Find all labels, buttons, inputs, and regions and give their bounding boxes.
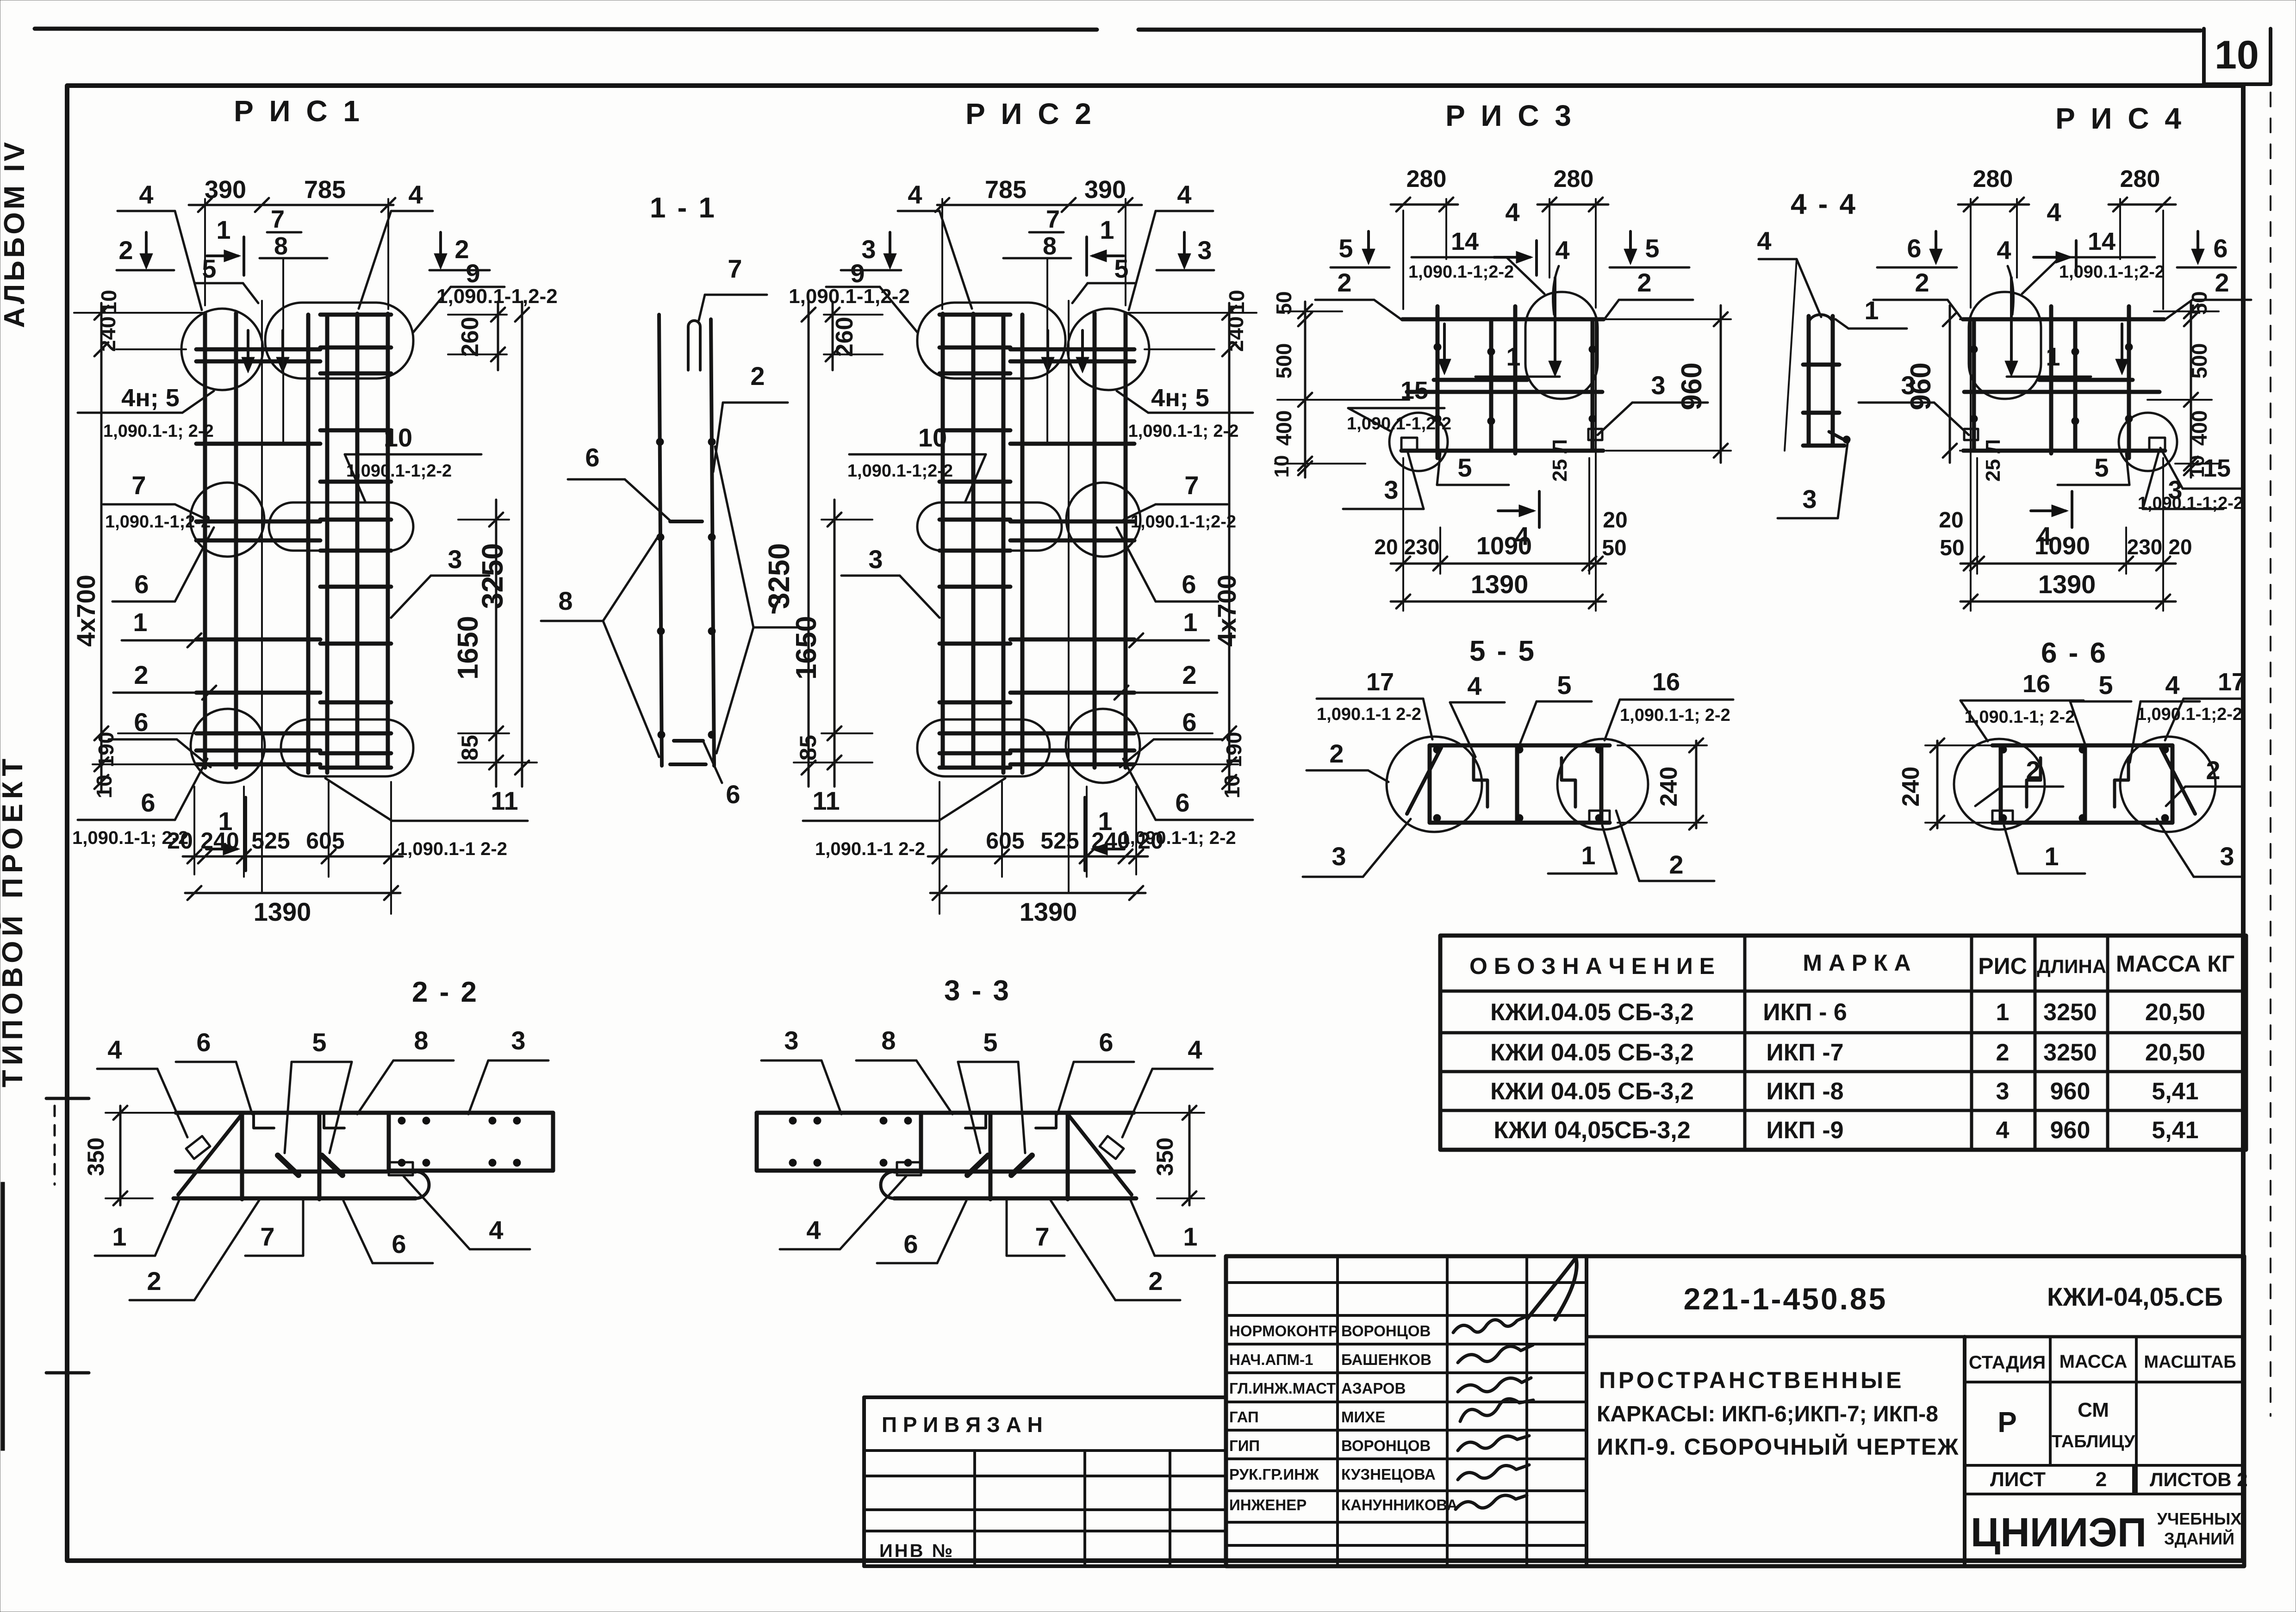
cage vertical e double [1595,319,1597,611]
svg-text:2: 2 [1915,268,1929,297]
cage vertical bar b2 [1002,315,1006,773]
svg-text:3: 3 [2168,475,2182,504]
plate marker left [1401,438,1417,450]
bar end dots [398,1117,405,1124]
left ladder rungs [196,347,320,352]
svg-text:85: 85 [795,735,821,761]
hook mark 2 [324,1113,344,1128]
svg-text:1: 1 [1100,215,1114,244]
detail circle middle [190,483,264,557]
svg-text:1: 1 [216,215,230,244]
svg-text:500: 500 [2187,343,2211,379]
cage vertical c [1513,306,1518,453]
cage vertical e double [1970,319,1972,611]
svg-text:5: 5 [2098,670,2113,700]
dim 3250 [521,302,523,787]
svg-text:16: 16 [2022,670,2050,698]
svg-text:М А Р К А: М А Р К А [1803,950,1910,976]
svg-text:1650: 1650 [452,616,484,680]
beam right rect [919,1113,923,1171]
svg-text:2: 2 [1329,739,1344,768]
title block divider line [1587,1335,2243,1339]
dim 350 [1188,1106,1191,1205]
svg-text:НОРМОКОНТР: НОРМОКОНТР [1229,1322,1338,1339]
svg-text:2: 2 [147,1266,161,1296]
extension line [1068,301,1070,893]
svg-text:4: 4 [1757,226,1771,255]
bar dots [2161,746,2169,753]
title block outline [1226,1256,2244,1566]
svg-text:ТАБЛИЦУ: ТАБЛИЦУ [2052,1432,2135,1451]
svg-text:4: 4 [1177,180,1191,209]
dim 960 [1720,305,1722,463]
svg-text:4: 4 [806,1215,821,1245]
bottom dim row [1402,458,1404,611]
svg-text:2: 2 [118,236,133,265]
svg-text:17: 17 [2218,668,2246,696]
assembly mid bar [2083,745,2087,823]
svg-text:240: 240 [96,316,120,352]
cage vertical a [1436,306,1440,458]
plate marker [1992,811,2013,823]
cage bottom chord [1963,449,2165,453]
svg-text:14: 14 [2088,228,2116,255]
svg-text:7: 7 [271,205,285,233]
svg-text:3250: 3250 [2043,1039,2097,1066]
svg-text:230: 230 [1404,535,1440,559]
detail stadium top [917,303,1065,378]
svg-text:МИХЕ: МИХЕ [1341,1408,1385,1426]
svg-text:ТИПОВОЙ ПРОЕКТ: ТИПОВОЙ ПРОЕКТ [0,754,29,1087]
detail stadium middle [917,502,1062,551]
svg-text:1: 1 [1506,342,1520,371]
svg-text:1390: 1390 [1471,570,1529,599]
svg-text:5: 5 [1557,670,1571,700]
extension line [261,301,263,893]
svg-text:7: 7 [728,254,742,283]
svg-text:8: 8 [558,586,572,615]
section 1-1 rung stub lower [674,739,703,743]
svg-text:ГИП: ГИП [1229,1437,1260,1454]
diagonal bar in circle [1407,748,1441,814]
svg-text:1,090.1-1;2-2: 1,090.1-1;2-2 [2137,705,2242,724]
svg-text:2: 2 [1669,850,1683,879]
svg-text:1,090.1-1;2-2: 1,090.1-1;2-2 [1131,512,1236,532]
svg-text:350: 350 [83,1137,109,1176]
page number box [2202,29,2206,84]
left ladder rungs [1010,347,1134,352]
svg-text:20,50: 20,50 [2145,999,2205,1026]
svg-text:1,090.1-1,2-2: 1,090.1-1,2-2 [789,285,910,308]
sheet top scan line [35,29,1097,30]
svg-text:КЖИ 04.05 СБ-3,2: КЖИ 04.05 СБ-3,2 [1490,1078,1694,1105]
svg-text:400: 400 [1272,410,1296,446]
svg-text:1,090.1-1 2-2: 1,090.1-1 2-2 [1317,705,1421,724]
section 4-4 top cap [1809,315,1833,324]
svg-text:10: 10 [92,775,116,798]
left dim line 240 10 190 [1228,303,1231,792]
top dimension line 390 785 [937,204,1142,206]
detail circle [2119,413,2177,471]
svg-text:2: 2 [1996,1039,2010,1066]
z stirrup mark 1 [2115,758,2128,807]
svg-text:ЛИСТ: ЛИСТ [1990,1468,2046,1491]
detail circle top [1068,309,1149,390]
inclined square marker [186,1136,210,1159]
svg-text:1,090.1-1;2-2: 1,090.1-1;2-2 [847,461,953,481]
svg-text:2: 2 [134,660,148,689]
svg-text:ЗДАНИЙ: ЗДАНИЙ [2164,1529,2234,1548]
svg-text:6: 6 [1175,788,1189,817]
pill bar 1 [1011,1155,1032,1175]
svg-text:ИКП - 6: ИКП - 6 [1763,999,1847,1026]
svg-text:3: 3 [1332,842,1346,871]
svg-text:ДЛИНА: ДЛИНА [2037,955,2106,977]
svg-text:1090: 1090 [1476,532,1532,560]
beam bottom double chord [894,1170,1134,1174]
svg-text:1: 1 [2044,842,2059,871]
svg-text:1390: 1390 [1020,897,1077,926]
svg-text:5: 5 [2094,453,2109,482]
svg-text:10: 10 [1220,775,1244,798]
svg-text:5: 5 [202,254,216,283]
detail stadium bottom [281,719,413,776]
bottom chord bend [881,1172,894,1198]
svg-text:ВОРОНЦОВ: ВОРОНЦОВ [1341,1437,1431,1454]
svg-text:4: 4 [2165,670,2179,700]
svg-text:1,090.1-1 2-2: 1,090.1-1 2-2 [397,839,507,859]
svg-text:20: 20 [1939,508,1963,533]
svg-text:50: 50 [1272,291,1296,315]
cage vertical bar b1 [1020,315,1025,773]
svg-text:9: 9 [850,259,865,288]
plate marker [1589,811,1610,823]
svg-text:2: 2 [750,361,765,391]
beam vertical bar mid [1066,1113,1070,1199]
svg-text:525: 525 [251,828,290,854]
dim 1650 and 85 [834,500,836,787]
svg-text:1,090.1-1;2-2: 1,090.1-1;2-2 [2059,262,2165,282]
bottom dim row [193,787,195,874]
svg-text:ИКП -9: ИКП -9 [1766,1117,1843,1144]
svg-text:6: 6 [141,788,155,817]
svg-text:КУЗНЕЦОВА: КУЗНЕЦОВА [1341,1466,1436,1483]
cage vertical bar a2 [1093,313,1097,768]
plate marker [389,1162,413,1175]
dim 3250 [808,302,810,787]
svg-text:1650: 1650 [790,616,822,680]
svg-text:350: 350 [1152,1137,1178,1176]
svg-text:3: 3 [1901,371,1915,400]
cage vertical b [1489,319,1493,451]
svg-text:1: 1 [1864,296,1879,325]
svg-text:ИКП -8: ИКП -8 [1766,1078,1843,1105]
cage vertical bar c1 [971,314,976,768]
svg-text:3: 3 [1651,371,1665,400]
svg-text:ГЛ.ИНЖ.МАСТ: ГЛ.ИНЖ.МАСТ [1229,1380,1336,1397]
svg-text:15: 15 [1400,377,1428,404]
svg-text:50: 50 [2187,291,2211,315]
svg-text:1,090.1-1; 2-2: 1,090.1-1; 2-2 [1965,707,2075,727]
svg-text:230: 230 [2127,535,2163,559]
svg-text:КЖИ-04,05.СБ: КЖИ-04,05.СБ [2047,1282,2223,1311]
svg-text:6: 6 [585,443,599,472]
section 1-1 top hairpin hook [688,321,700,370]
svg-text:8: 8 [414,1026,428,1055]
assembly mid bar [1515,745,1519,823]
assembly end bar right [1999,745,2003,823]
svg-text:240: 240 [1655,767,1682,807]
svg-text:1,090.1-1; 2-2: 1,090.1-1; 2-2 [103,422,214,441]
svg-text:1: 1 [1581,841,1595,870]
cage vertical bar a1 [1124,313,1128,768]
svg-text:4н; 5: 4н; 5 [121,384,180,412]
svg-text:МАССА КГ: МАССА КГ [2116,951,2234,977]
svg-text:КАРКАСЫ: ИКП-6;ИКП-7; ИКП-8: КАРКАСЫ: ИКП-6;ИКП-7; ИКП-8 [1597,1402,1938,1426]
svg-text:25 Л: 25 Л [1549,439,1571,482]
detail circle bottom [1066,709,1140,783]
svg-text:1,090.1-1; 2-2: 1,090.1-1; 2-2 [1128,422,1239,441]
assembly top chord [1992,744,2172,748]
svg-text:КЖИ 04.05 СБ-3,2: КЖИ 04.05 СБ-3,2 [1490,1039,1694,1066]
section 1-1 right bar [711,319,714,766]
svg-text:20: 20 [1374,535,1398,559]
section 1-1 left bar [659,315,662,766]
svg-text:3: 3 [784,1026,798,1055]
svg-text:2: 2 [2215,268,2229,297]
cage top chord [1402,317,1604,322]
hook mark 2 [965,1113,986,1128]
svg-text:20: 20 [1603,508,1627,533]
cage vertical bar c1 [355,314,360,768]
detail circle bottom [191,709,265,783]
detail stadium bottom [917,719,1050,776]
svg-text:5,41: 5,41 [2152,1078,2198,1105]
svg-text:СТАДИЯ: СТАДИЯ [1969,1352,2046,1373]
svg-text:4: 4 [1188,1035,1202,1064]
beam vertical bar 2 [989,1113,993,1199]
svg-text:КЖИ 04,05СБ-3,2: КЖИ 04,05СБ-3,2 [1493,1117,1690,1144]
svg-text:20: 20 [167,828,193,854]
svg-text:ЦНИИЭП: ЦНИИЭП [1971,1509,2147,1555]
svg-text:ВОРОНЦОВ: ВОРОНЦОВ [1341,1322,1431,1339]
svg-text:3 - 3: 3 - 3 [944,975,1011,1007]
svg-text:3: 3 [1197,236,1212,265]
z stirrup mark 2 [1562,758,1575,807]
svg-text:1: 1 [2046,342,2060,371]
title block left grid [1226,1281,1587,1284]
detail stadium top [265,303,413,378]
svg-text:ИКП -7: ИКП -7 [1766,1039,1843,1066]
svg-text:5: 5 [1645,234,1659,263]
svg-text:АЛЬБОМ IV: АЛЬБОМ IV [0,139,31,328]
side dim 50 500 400 10 [2190,302,2192,477]
svg-text:6: 6 [134,570,149,599]
svg-text:1090: 1090 [2035,532,2090,560]
svg-text:25 Л: 25 Л [1982,439,2004,482]
bottom total 1390 [1391,601,1606,603]
svg-text:605: 605 [986,828,1024,854]
right ladder rungs [320,313,391,317]
hook mark 1 [254,1113,274,1128]
svg-text:6: 6 [1182,707,1196,737]
inclined bar [1068,1114,1132,1195]
detail stadium middle [269,502,413,551]
svg-text:785: 785 [985,176,1027,204]
svg-text:2: 2 [2206,756,2220,785]
detail circle right [1954,739,2045,830]
svg-text:МАСШТАБ: МАСШТАБ [2144,1352,2236,1372]
dim 280 right [2016,199,2018,278]
svg-text:16: 16 [1652,668,1680,696]
cage vertical bar b2 [325,315,330,773]
svg-text:2 - 2: 2 - 2 [412,976,479,1008]
detail circle middle [1066,483,1140,557]
svg-text:6: 6 [2213,234,2228,263]
svg-text:7: 7 [1035,1222,1049,1251]
svg-text:2: 2 [1148,1266,1163,1296]
left margin tick marks [46,1097,89,1100]
hook arrow left [2121,324,2123,371]
svg-text:1,090.1-1;2-2: 1,090.1-1;2-2 [2138,494,2243,513]
svg-text:3: 3 [1802,484,1817,514]
svg-text:10: 10 [97,290,121,313]
svg-text:6: 6 [134,707,148,737]
svg-text:4: 4 [139,180,153,209]
svg-text:6: 6 [1182,570,1196,599]
svg-text:4х700: 4х700 [1212,575,1241,647]
svg-text:1,090.1-1,2-2: 1,090.1-1,2-2 [1347,414,1451,434]
cage vertical d [1591,319,1595,451]
svg-text:1,090.1-1;2-2: 1,090.1-1;2-2 [346,461,452,481]
svg-text:СМ: СМ [2078,1399,2109,1421]
svg-text:ИНВ №: ИНВ № [879,1541,954,1561]
svg-text:3: 3 [511,1026,525,1055]
svg-text:4х700: 4х700 [71,575,100,647]
svg-text:390: 390 [1084,176,1126,204]
bottom total 1390 [1960,601,2176,603]
svg-text:П Р И В Я З А Н: П Р И В Я З А Н [882,1413,1043,1437]
svg-text:1,090.1-1 2-2: 1,090.1-1 2-2 [815,839,925,859]
plate marker left [2149,438,2165,450]
cage top chord [1963,317,2164,322]
svg-text:6 - 6: 6 - 6 [2041,637,2108,669]
svg-text:ЛИСТОВ 2: ЛИСТОВ 2 [2150,1469,2248,1490]
svg-text:Р: Р [1997,1407,2016,1438]
svg-text:3: 3 [868,545,883,574]
svg-text:7: 7 [1184,471,1199,500]
svg-text:Р И С 4: Р И С 4 [2055,102,2185,135]
hook arrow left [1443,324,1446,371]
svg-text:280: 280 [1973,166,2013,192]
svg-text:ИНЖЕНЕР: ИНЖЕНЕР [1229,1496,1307,1513]
section 4-4 ladder bars [1807,316,1811,446]
svg-text:4: 4 [1555,236,1569,265]
section 1-1 rung stub upper [670,520,702,523]
svg-text:260: 260 [831,317,858,357]
bottom dim row [1135,787,1137,874]
svg-text:4: 4 [1996,1117,2010,1144]
svg-text:2: 2 [1182,660,1196,689]
svg-text:5 - 5: 5 - 5 [1469,635,1536,667]
svg-text:10: 10 [1225,290,1249,313]
svg-text:20: 20 [1138,828,1164,854]
svg-text:3: 3 [1384,475,1398,504]
svg-text:5: 5 [1114,254,1128,283]
top dimension line 390 785 [189,204,393,206]
svg-text:4 - 4: 4 - 4 [1791,188,1857,220]
bar dots [2125,343,2133,351]
svg-text:7: 7 [768,590,782,619]
dim 240 [1936,741,1939,828]
svg-text:МАССА: МАССА [2060,1352,2128,1372]
cage vertical a [2127,306,2131,458]
svg-text:240: 240 [200,828,239,854]
side dim 50 500 400 10 [1304,302,1307,477]
plate marker right [1964,429,1978,440]
svg-text:280: 280 [1554,166,1594,192]
svg-text:4: 4 [1997,236,2011,265]
svg-text:4: 4 [1467,671,1481,701]
beam top chord [176,1111,553,1115]
svg-text:3: 3 [1996,1078,2010,1105]
cage vertical b [2073,319,2078,451]
inclined bar [178,1114,242,1195]
svg-text:240: 240 [1224,316,1248,352]
svg-text:4: 4 [908,180,922,209]
detail circle left [1387,737,1482,832]
svg-text:15: 15 [2203,454,2231,482]
cage vertical bar c2 [386,314,390,768]
assembly bottom chord [1430,821,1610,825]
svg-text:2: 2 [1637,268,1651,297]
svg-text:5: 5 [1338,234,1353,263]
svg-text:10: 10 [2215,33,2259,77]
cage vertical bar c2 [941,314,945,768]
svg-text:1: 1 [1183,608,1197,637]
detail stadium [1525,292,1598,399]
svg-text:РУК.ГР.ИНЖ: РУК.ГР.ИНЖ [1229,1466,1319,1483]
svg-text:АЗАРОВ: АЗАРОВ [1341,1380,1406,1397]
detail stadium [1969,292,2041,399]
z stirrup mark 2 [2027,758,2041,807]
left dim line 240 10 190 [100,303,103,792]
svg-text:1: 1 [1996,999,2010,1026]
svg-text:10: 10 [918,423,947,452]
svg-text:3250: 3250 [2043,999,2097,1026]
svg-text:1: 1 [133,608,147,637]
cage mid bar 1 [1434,378,1527,382]
section 4-4 rungs [1803,363,1839,367]
svg-text:960: 960 [2050,1117,2091,1144]
svg-text:1390: 1390 [254,897,311,926]
detail circle left [2120,737,2215,832]
svg-text:7: 7 [260,1222,274,1251]
right columns [1963,1337,1966,1566]
pill bar 2 [967,1155,988,1175]
dim 1650 and 85 [495,500,498,787]
cage vertical bar b1 [306,315,311,773]
svg-text:УЧЕБНЫХ: УЧЕБНЫХ [2157,1509,2242,1528]
svg-text:400: 400 [2187,410,2211,446]
bottom total dim 1390 [185,892,400,894]
svg-text:БАШЕНКОВ: БАШЕНКОВ [1341,1351,1431,1368]
assembly top chord [1430,744,1610,748]
bottom total dim 1390 [930,892,1145,894]
svg-text:14: 14 [1451,228,1479,255]
svg-text:4: 4 [1505,198,1519,227]
svg-text:1: 1 [1183,1222,1197,1251]
